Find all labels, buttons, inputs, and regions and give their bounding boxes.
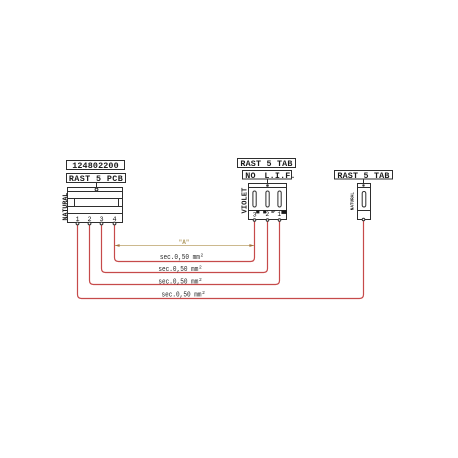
leader circle J1 xyxy=(95,188,98,191)
svg-text:2: 2 xyxy=(202,290,205,296)
svg-text:3: 3 xyxy=(253,211,257,218)
connector J1 label 124802200 xyxy=(67,161,125,172)
svg-text:2: 2 xyxy=(199,277,202,283)
svg-text:2: 2 xyxy=(201,253,204,259)
svg-text:NATURAL: NATURAL xyxy=(351,192,356,210)
connector J2 pin terminals xyxy=(253,219,281,222)
svg-text:"A": "A" xyxy=(179,239,190,246)
wire W4 label sec.0,50 mm2 xyxy=(162,290,206,300)
connector J2 body (RAST 5 TAB, 3-pin) xyxy=(249,184,287,220)
connector J2 label RAST 5 TAB xyxy=(238,159,296,170)
svg-text:1: 1 xyxy=(277,211,281,218)
connector J2 label NO L.I.F. xyxy=(243,171,296,181)
wire W3 pin2 to J2 pin1 xyxy=(90,221,280,284)
svg-text:NF: NF xyxy=(271,211,275,215)
connector J2 polarizing mark left of 2 xyxy=(263,210,266,213)
svg-text:2: 2 xyxy=(199,265,202,271)
svg-text:RAST 5 TAB: RAST 5 TAB xyxy=(240,159,292,169)
svg-text:NATURAL: NATURAL xyxy=(62,193,69,221)
leader line J1 xyxy=(96,183,98,189)
wire W4 pin1 to J3 xyxy=(78,221,364,299)
connector J3 body (RAST 5 TAB, 1-pin) xyxy=(358,184,371,220)
svg-text:sec.0,50 mm: sec.0,50 mm xyxy=(162,292,202,300)
svg-text:NOL.I.F.: NOL.I.F. xyxy=(245,171,295,181)
svg-text:sec.0,50 mm: sec.0,50 mm xyxy=(160,254,200,262)
svg-text:124802200: 124802200 xyxy=(72,161,119,171)
dimension line A xyxy=(115,244,254,247)
leader dot J2 xyxy=(266,184,269,187)
connector J1 body (RAST 5 PCB, 4-pin) xyxy=(68,188,123,223)
wire W2 label sec.0,50 mm2 xyxy=(158,265,202,275)
connector J1 pin terminals xyxy=(76,222,116,225)
svg-text:VIOLET: VIOLET xyxy=(242,187,250,214)
svg-text:sec.0,50 mm: sec.0,50 mm xyxy=(158,266,198,274)
connector J2 pin numbers 3 2 1 xyxy=(253,211,282,218)
connector J2 polarizing mark right of 3 xyxy=(256,210,259,213)
wire W1 pin4 to J2 pin3 xyxy=(115,221,255,261)
svg-text:sec.0,50 mm: sec.0,50 mm xyxy=(158,278,198,286)
leader line J3 xyxy=(363,179,365,186)
connector J1 pin numbers 1 2 3 4 xyxy=(75,216,116,224)
wire W3 label sec.0,50 mm2 xyxy=(158,277,202,287)
connector J3 label RAST 5 TAB xyxy=(335,171,393,181)
connector J3 pin terminal xyxy=(362,218,365,221)
connector J1 label RAST 5 PCB xyxy=(67,174,126,185)
leader dot J3 xyxy=(362,184,364,186)
wire W2 pin3 to J2 pin2 xyxy=(102,221,268,272)
connector J2 polarizing mark right of 1 xyxy=(281,210,286,214)
wire W1 label sec.0,50 mm2 xyxy=(160,253,204,263)
leader line J2 xyxy=(267,179,269,186)
